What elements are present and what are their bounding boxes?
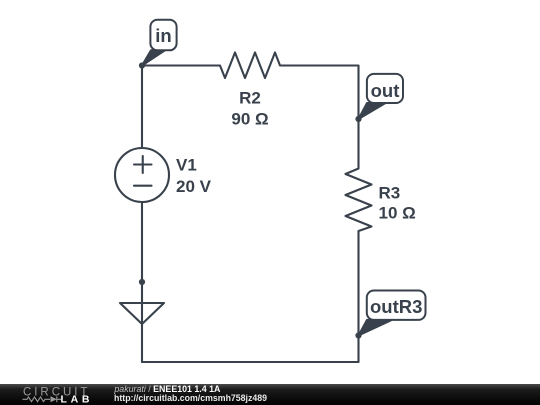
svg-text:20 V: 20 V — [176, 177, 212, 196]
svg-text:10 Ω: 10 Ω — [379, 204, 416, 223]
svg-text:V1: V1 — [176, 156, 197, 175]
svg-text:R2: R2 — [239, 89, 261, 108]
svg-text:LAB: LAB — [61, 394, 91, 405]
svg-text:R3: R3 — [379, 184, 401, 203]
svg-text:outR3: outR3 — [370, 296, 422, 317]
svg-text:in: in — [155, 25, 171, 46]
svg-text:90 Ω: 90 Ω — [231, 110, 268, 129]
svg-text:http://circuitlab.com/cmsmh758: http://circuitlab.com/cmsmh758jz489 — [114, 393, 267, 404]
svg-text:out: out — [371, 80, 400, 101]
